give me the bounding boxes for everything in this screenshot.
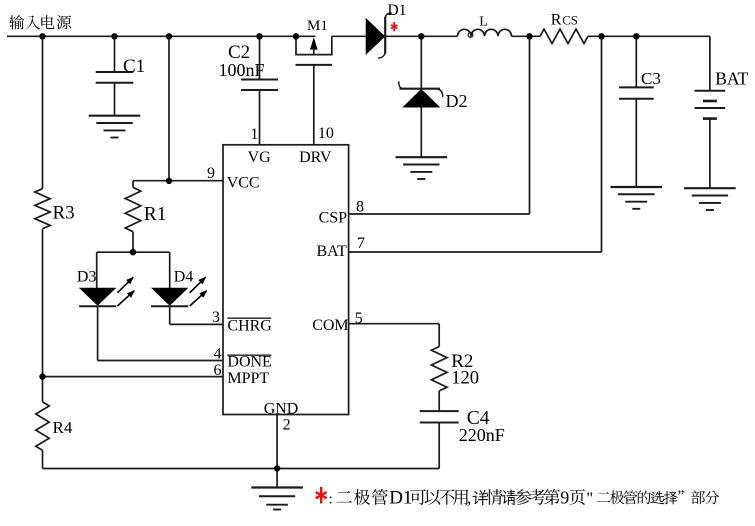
svg-text:8: 8 — [356, 198, 364, 215]
svg-text:D4: D4 — [174, 269, 194, 286]
svg-text:M1: M1 — [307, 18, 328, 34]
svg-text:CHRG: CHRG — [227, 317, 272, 334]
svg-text:10: 10 — [318, 125, 334, 142]
svg-text:DONE: DONE — [227, 354, 271, 371]
svg-text:BAT: BAT — [317, 243, 347, 260]
svg-text:R1: R1 — [144, 204, 167, 225]
svg-text:VCC: VCC — [227, 175, 260, 192]
svg-text:R3: R3 — [53, 203, 75, 224]
svg-text:D3: D3 — [77, 269, 97, 286]
svg-text:220nF: 220nF — [459, 425, 505, 445]
svg-text:1: 1 — [250, 126, 258, 143]
svg-text:": " — [586, 488, 593, 507]
svg-text:120: 120 — [451, 368, 479, 388]
svg-text:4: 4 — [214, 346, 222, 363]
svg-text:D2: D2 — [446, 91, 468, 111]
svg-text:VG: VG — [248, 149, 272, 166]
svg-text:L: L — [479, 15, 488, 30]
svg-text:,: , — [467, 488, 471, 507]
svg-text:D1: D1 — [389, 487, 412, 508]
svg-text:COM: COM — [312, 317, 348, 334]
svg-text:R4: R4 — [53, 418, 73, 437]
svg-text:100nF: 100nF — [219, 60, 265, 80]
svg-text:D1: D1 — [388, 2, 407, 19]
svg-text:7: 7 — [357, 235, 365, 252]
svg-text:CS: CS — [562, 13, 578, 27]
svg-text:R: R — [551, 11, 562, 28]
svg-text:2: 2 — [283, 417, 291, 434]
svg-text:3: 3 — [212, 309, 220, 326]
svg-text:”: ” — [678, 488, 685, 505]
svg-text:DRV: DRV — [299, 149, 332, 166]
svg-text::: : — [329, 492, 333, 508]
svg-text:BAT: BAT — [715, 68, 748, 88]
svg-text:9: 9 — [560, 487, 569, 507]
svg-text:5: 5 — [355, 310, 363, 327]
svg-text:MPPT: MPPT — [227, 370, 269, 387]
svg-text:CSP: CSP — [319, 210, 348, 227]
svg-text:GND: GND — [264, 401, 299, 418]
svg-text:9: 9 — [207, 165, 215, 182]
svg-text:6: 6 — [214, 362, 222, 379]
svg-text:C1: C1 — [123, 56, 145, 77]
svg-text:C3: C3 — [641, 69, 661, 88]
